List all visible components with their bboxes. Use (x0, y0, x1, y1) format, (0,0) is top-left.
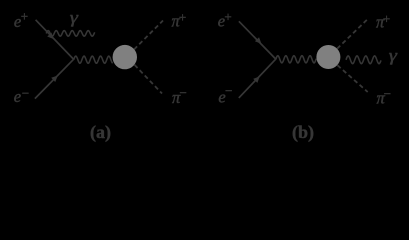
svg-text:+: + (179, 10, 186, 25)
svg-text:(a): (a) (90, 122, 111, 143)
svg-text:−: − (225, 83, 232, 98)
pion pi+ dashed line (a) (134, 21, 163, 50)
photon gamma radiated wavy (b) (346, 56, 381, 64)
photon gamma radiated from e+ line (a) (46, 31, 94, 37)
photon propagator wavy (a) (74, 56, 113, 63)
pion pi- dashed line (b) (337, 65, 367, 92)
pion pi+ dashed line (b) (337, 18, 369, 49)
wire: e+ fermion line (b) (239, 21, 276, 59)
arrow on e- line (a) (51, 73, 60, 82)
arrow on e+ line (b) (255, 37, 264, 46)
wire: e- fermion line (b) (239, 59, 276, 98)
arrow on e- line (b) (253, 74, 262, 83)
svg-text:+: + (224, 9, 231, 24)
wire: e+ fermion line (a) (36, 20, 74, 60)
svg-text:γ: γ (389, 46, 399, 65)
photon propagator wavy (b) (276, 56, 317, 63)
svg-text:+: + (383, 11, 390, 26)
svg-text:(b): (b) (292, 122, 314, 143)
svg-text:γ: γ (70, 8, 80, 27)
svg-text:e: e (14, 87, 21, 106)
svg-text:+: + (21, 9, 28, 24)
hadronic blob (b) (316, 45, 340, 69)
pion pi- dashed line (a) (135, 65, 163, 94)
svg-text:−: − (384, 86, 391, 101)
hadronic blob (a) (113, 45, 137, 69)
wire: e- fermion line (a) (35, 59, 74, 98)
svg-text:−: − (22, 85, 29, 100)
arrow on e+ line (a) (47, 33, 56, 42)
svg-text:−: − (180, 85, 187, 100)
